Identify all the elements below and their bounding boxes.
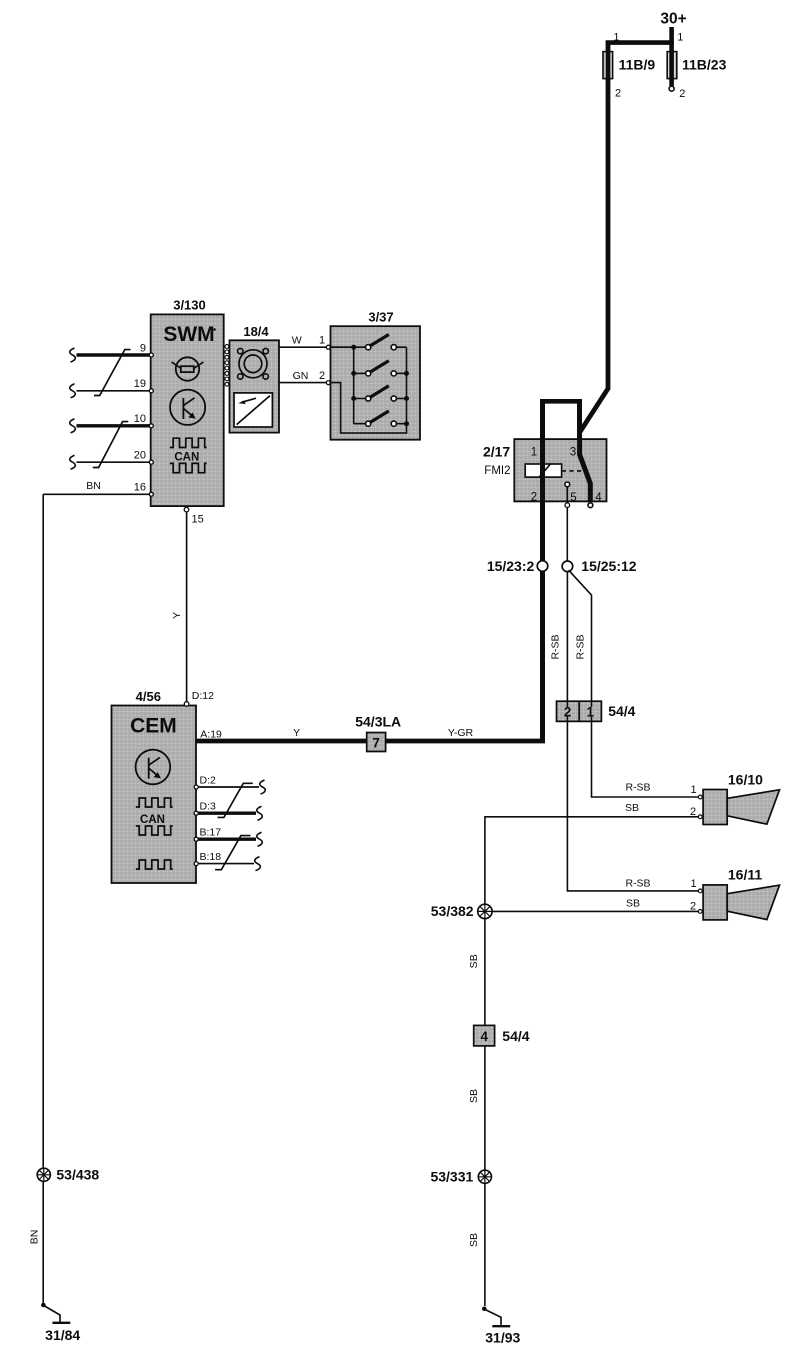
fuse 11B/23 xyxy=(667,51,677,79)
svg-text:1: 1 xyxy=(531,447,537,459)
connector 54/4 single pin 4 xyxy=(474,1025,495,1046)
wire 30+ feed vertical through fuse 11B/23 xyxy=(669,27,674,86)
svg-text:R-SB: R-SB xyxy=(625,878,650,890)
svg-text:D:2: D:2 xyxy=(200,775,217,787)
svg-text:30+: 30+ xyxy=(660,11,686,28)
twisted pair slash D:2/D:3 xyxy=(218,783,253,817)
svg-text:4: 4 xyxy=(595,492,602,504)
break squiggle wire 9 xyxy=(70,348,76,362)
control module CEM 4/56 box xyxy=(112,706,197,884)
svg-text:SB: SB xyxy=(468,954,480,968)
wire SB horn 16/11 from splice 53/382 xyxy=(492,910,699,912)
relay pin 5 lead xyxy=(566,487,568,503)
svg-text:3: 3 xyxy=(570,447,576,459)
svg-text:3/37: 3/37 xyxy=(368,310,393,325)
wire top loop horizontal to pin 3 xyxy=(540,399,579,404)
horn 16/11 xyxy=(703,885,779,920)
fuse 11B/9 xyxy=(603,51,613,79)
junction dot right bus row 4 xyxy=(404,421,409,426)
wire D:2 from CEM xyxy=(196,786,259,788)
CAN symbol inside CEM xyxy=(136,798,173,835)
pin circle 19 xyxy=(149,389,153,393)
wire SB horn 16/10 to SB bus xyxy=(485,817,699,905)
switch 1 of 3/37 xyxy=(366,335,407,350)
pin circle 10 xyxy=(149,424,153,428)
switch 4 of 3/37 xyxy=(366,411,407,426)
pin circle D:3 xyxy=(194,811,198,815)
wire R-SB right branch to 54/4 pin 1 xyxy=(569,570,592,701)
svg-text:31/84: 31/84 xyxy=(45,1327,80,1343)
svg-text:CAN: CAN xyxy=(140,814,165,826)
internal right bus 3/37 xyxy=(406,347,408,424)
wire relay pin 3 lead xyxy=(577,399,582,456)
svg-text:15: 15 xyxy=(192,514,204,526)
twisted pair slash wires 10/20 xyxy=(93,422,129,468)
svg-text:CAN: CAN xyxy=(174,452,199,464)
svg-text:W: W xyxy=(292,335,302,347)
pin circle 16 xyxy=(149,492,153,496)
svg-text:2: 2 xyxy=(679,88,685,100)
pin circle 2 horn 16/11 xyxy=(698,910,702,914)
svg-text:19: 19 xyxy=(134,378,146,390)
svg-text:54/4: 54/4 xyxy=(608,703,635,719)
wire B:18 from CEM xyxy=(196,863,254,865)
svg-text:D:12: D:12 xyxy=(192,690,214,702)
wire pin 20 SWM xyxy=(77,461,151,463)
svg-text:BN: BN xyxy=(29,1230,41,1245)
svg-text:9: 9 xyxy=(140,343,146,355)
junction dot bus row 2 xyxy=(351,371,356,376)
pin 2 open terminal of fuse 11B/23 xyxy=(669,86,674,91)
relay switch blade pin 3 to pin 4 xyxy=(580,438,591,502)
horn icon inside SWM xyxy=(172,357,204,380)
pin circle 2 horn 16/10 xyxy=(698,815,702,819)
svg-text:SWM: SWM xyxy=(163,323,214,346)
wire Y from SWM pin 15 to CEM D:12 xyxy=(186,512,188,702)
svg-text:2: 2 xyxy=(615,88,621,100)
svg-text:GN: GN xyxy=(293,370,309,382)
internal pin 2 path 3/37 xyxy=(331,383,407,433)
svg-text:53/331: 53/331 xyxy=(430,1169,473,1185)
svg-text:54/4: 54/4 xyxy=(502,1028,529,1044)
splice 53/331 xyxy=(478,1170,491,1183)
wire pin 10 SWM xyxy=(77,424,151,427)
svg-text:11B/9: 11B/9 xyxy=(619,57,656,73)
pin 15 circle at SWM bottom xyxy=(184,507,189,512)
CAN symbol inside SWM xyxy=(170,438,207,472)
relay dashed actuator line xyxy=(562,470,585,472)
wire top horizontal bus xyxy=(606,40,674,45)
svg-text:SB: SB xyxy=(468,1233,480,1247)
svg-text:Y: Y xyxy=(293,727,300,739)
svg-text:CEM: CEM xyxy=(130,715,177,738)
pin circle B:17 xyxy=(194,837,198,841)
svg-text:1: 1 xyxy=(691,784,697,796)
svg-text:D:3: D:3 xyxy=(200,801,217,813)
pin circle B:18 xyxy=(194,862,198,866)
break squiggle D:2 xyxy=(260,780,266,794)
svg-text:54/3LA: 54/3LA xyxy=(355,714,401,730)
wire Y / Y-GR horizontal CEM A:19 to relay riser xyxy=(196,739,545,744)
svg-text:10: 10 xyxy=(134,413,146,425)
svg-text:B:17: B:17 xyxy=(200,827,222,839)
ground 31/93 xyxy=(482,1307,510,1327)
break squiggle B:17 xyxy=(257,832,263,846)
connector 15/23:2 xyxy=(537,561,548,572)
wire relay pin 5 to connector 15/25:12 xyxy=(566,508,568,562)
wire pin 9 SWM xyxy=(77,353,151,356)
wire R-SB to horn 16/11 pin 1 xyxy=(567,720,698,891)
svg-text:R-SB: R-SB xyxy=(550,634,562,659)
svg-text:5: 5 xyxy=(570,492,576,504)
svg-text:2: 2 xyxy=(690,806,696,818)
wire fuse 11B/9 feed down to relay pin 3 xyxy=(580,41,608,440)
twisted pair slash wires 9/19 xyxy=(94,350,131,396)
transistor icon inside CEM xyxy=(136,750,171,785)
relay pin 5 contact circle xyxy=(565,482,570,487)
wire pin 19 SWM xyxy=(77,390,151,392)
svg-text:2: 2 xyxy=(319,370,325,382)
connector 15/25:12 xyxy=(562,561,573,572)
svg-text:16: 16 xyxy=(134,482,146,494)
extra bus wave symbol inside CEM xyxy=(136,860,173,869)
wire R-SB to horn 16/10 pin 1 xyxy=(592,720,699,797)
svg-text:11B/23: 11B/23 xyxy=(682,57,727,73)
svg-text:7: 7 xyxy=(372,736,380,751)
svg-text:53/382: 53/382 xyxy=(431,903,474,919)
svg-text:20: 20 xyxy=(134,450,146,462)
svg-text:BN: BN xyxy=(86,480,101,492)
splice 53/382 xyxy=(478,904,492,918)
control module SWM 3/130 box xyxy=(151,314,224,506)
svg-text:1: 1 xyxy=(677,32,683,44)
svg-text:2/17: 2/17 xyxy=(483,444,510,460)
ground 31/84 xyxy=(41,1303,70,1323)
pin circle 1 horn 16/10 xyxy=(698,795,702,799)
svg-text:31/93: 31/93 xyxy=(485,1330,520,1346)
svg-text:16/11: 16/11 xyxy=(728,867,762,883)
rheostat icon inside 18/4 xyxy=(234,393,272,427)
svg-text:A:19: A:19 xyxy=(200,729,222,741)
svg-text:2: 2 xyxy=(564,705,572,720)
break squiggle wire 20 xyxy=(70,455,76,469)
svg-text:2: 2 xyxy=(531,492,537,504)
wire BN from pin 16 xyxy=(43,493,150,495)
break squiggle D:3 xyxy=(257,806,263,820)
wire SB bus down to ground 31/93 xyxy=(484,919,486,1306)
svg-text:SB: SB xyxy=(468,1089,480,1103)
module 18/4 box xyxy=(230,340,280,432)
svg-text:R-SB: R-SB xyxy=(625,782,650,794)
relay coil xyxy=(525,464,561,477)
svg-text:18/4: 18/4 xyxy=(243,324,269,339)
junction dot right bus row 3 xyxy=(404,396,409,401)
wire W from 18/4 to 3/37 pin 1 xyxy=(279,346,326,348)
svg-text:FMI2: FMI2 xyxy=(484,465,510,477)
svg-text:1: 1 xyxy=(691,878,697,890)
svg-text:2: 2 xyxy=(690,900,696,912)
wire thick riser relay pin1/pin2 down to Y-GR corner xyxy=(540,399,545,741)
pin circle 9 xyxy=(149,353,153,357)
connector 54/4 two-cell xyxy=(557,701,602,721)
inline connector 54/3LA pin 7 xyxy=(367,733,386,752)
svg-text:SB: SB xyxy=(626,898,640,910)
svg-text:4: 4 xyxy=(480,1029,488,1044)
wire thick through coil xyxy=(540,462,545,480)
svg-text:15/25:12: 15/25:12 xyxy=(581,558,636,574)
svg-text:16/10: 16/10 xyxy=(728,771,763,787)
switch pack 3/37 box xyxy=(331,326,421,440)
wire B:17 from CEM xyxy=(196,838,256,841)
speaker icon inside 18/4 xyxy=(238,348,269,379)
pin circle 20 xyxy=(149,460,153,464)
svg-text:Y-GR: Y-GR xyxy=(448,727,474,739)
relay pin 4 terminal circle xyxy=(588,503,593,508)
svg-text:4/56: 4/56 xyxy=(136,689,161,704)
svg-text:SB: SB xyxy=(625,802,639,814)
pin D:12 circle CEM top xyxy=(184,702,189,707)
transistor icon inside SWM xyxy=(170,390,205,425)
svg-text:1: 1 xyxy=(586,705,594,720)
svg-text:3/130: 3/130 xyxy=(173,298,206,313)
junction dot right bus row 2 xyxy=(404,371,409,376)
relay 2/17 FMI2 box xyxy=(514,439,606,501)
svg-text:1: 1 xyxy=(319,335,325,347)
pin circle 2 of 3/37 xyxy=(326,381,330,385)
wire D:3 from CEM xyxy=(196,812,256,815)
break squiggle wire 10 xyxy=(70,419,76,433)
twisted pair slash B:17/B:18 xyxy=(215,836,250,870)
svg-text:53/438: 53/438 xyxy=(56,1167,99,1183)
pin circle 1 horn 16/11 xyxy=(698,889,702,893)
horn 16/10 xyxy=(703,790,779,825)
switch 3 of 3/37 xyxy=(366,386,407,401)
wire BN bus down left side xyxy=(42,494,44,1305)
svg-text:15/23:2: 15/23:2 xyxy=(487,558,535,574)
wire thick through relay pins 1-2 (over box) xyxy=(540,439,545,502)
svg-text:R-SB: R-SB xyxy=(575,634,587,659)
svg-text:B:18: B:18 xyxy=(200,851,222,863)
pin circle D:2 xyxy=(194,785,198,789)
internal left bus 3/37 xyxy=(331,347,366,424)
splice 53/438 xyxy=(37,1168,50,1181)
junction dot bus row 3 xyxy=(351,396,356,401)
switch 2 of 3/37 xyxy=(366,361,407,376)
break squiggle wire 19 xyxy=(70,384,76,398)
wire R-SB left branch to 54/4 pin 2 xyxy=(566,572,568,701)
connector pin row on 18/4 left edge xyxy=(225,345,229,387)
break squiggle B:18 xyxy=(255,857,261,871)
junction dot bus row 1 xyxy=(351,345,356,350)
relay pin 5 terminal circle xyxy=(565,503,570,508)
pin circle 1 of 3/37 xyxy=(326,345,330,349)
wire GN from 18/4 to 3/37 pin 2 xyxy=(279,382,326,384)
svg-text:Y: Y xyxy=(171,612,183,619)
svg-text:1: 1 xyxy=(613,32,619,44)
